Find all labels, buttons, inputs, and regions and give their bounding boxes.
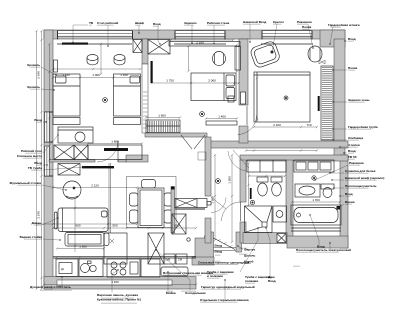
svg-text:Вход: Вход	[153, 22, 161, 26]
oven box	[164, 254, 175, 264]
wall entry threshold	[214, 248, 237, 251]
sill bed1	[57, 43, 132, 45]
dresser bed1	[88, 145, 142, 160]
wall jog bed1 bottom east	[126, 155, 148, 162]
sink kitchen	[79, 259, 103, 277]
towel bar bath1	[250, 188, 252, 199]
chair L2	[130, 210, 139, 223]
microwave box	[176, 254, 187, 264]
dim left chain2	[36, 31, 38, 289]
wall bathroom left lower	[240, 222, 246, 243]
svg-text:710: 710	[306, 123, 311, 127]
svg-text:1 100: 1 100	[120, 73, 128, 77]
svg-text:2 100: 2 100	[273, 123, 281, 127]
svg-text:1 600: 1 600	[79, 245, 87, 249]
hall tall wardrobe	[172, 214, 186, 234]
svg-text:Раковина: Раковина	[297, 20, 312, 24]
svg-text:Полка: Полка	[348, 66, 358, 70]
wall bed2 right lower stub	[239, 126, 248, 143]
svg-text:Зеркало: Зеркало	[184, 21, 197, 25]
tall cupboard	[104, 233, 127, 264]
dim bed1 beds	[53, 77, 141, 79]
dim bed2 vertical left	[188, 46, 190, 71]
svg-text:Ванна: Ванна	[345, 200, 355, 204]
chair T	[142, 180, 156, 189]
bathtub	[291, 205, 341, 225]
sill bath top	[261, 43, 313, 45]
chair bed1	[75, 132, 85, 142]
door bed1	[117, 141, 119, 162]
svg-text:3 240: 3 240	[37, 211, 41, 219]
closet room square	[254, 72, 310, 122]
svg-text:Диван: Диван	[31, 221, 41, 225]
tv living	[82, 166, 114, 168]
stove	[107, 259, 140, 277]
wall bed1 bottom	[48, 160, 95, 162]
svg-text:Спальное место: Спальное место	[17, 154, 42, 158]
radiator sofa	[55, 212, 58, 229]
window left wall lower balcony	[44, 175, 53, 177]
chair R2	[164, 210, 173, 223]
drain bath1	[250, 200, 254, 204]
svg-text:Рабочая стена: Рабочая стена	[207, 21, 229, 25]
svg-text:4 полки: 4 полки	[348, 143, 360, 147]
counter line	[53, 257, 196, 259]
svg-text:Вход: Вход	[348, 149, 356, 153]
svg-text:1 600: 1 600	[158, 114, 166, 118]
wall bathroom top band	[240, 155, 348, 161]
niche corridor top	[198, 152, 206, 160]
bench bed A	[53, 118, 80, 125]
svg-text:Полотенцесушитель: Полотенцесушитель	[345, 184, 377, 188]
svg-text:1 400: 1 400	[218, 115, 226, 119]
dim corridor vertical2	[231, 155, 233, 242]
wall left	[44, 30, 53, 289]
svg-text:СхМ: СхМ	[165, 258, 170, 262]
desk bed1	[58, 127, 93, 143]
svg-text:Вход: Вход	[348, 37, 356, 41]
dim bath2	[292, 201, 340, 203]
wall bathroom bottom band left	[243, 233, 287, 244]
basket closet	[308, 46, 322, 62]
svg-text:2 120: 2 120	[91, 183, 99, 187]
svg-text:Зеркало зоны: Зеркало зоны	[348, 98, 370, 102]
wall bottom kitchen	[44, 277, 196, 290]
tv closet	[318, 96, 320, 111]
tv bed2	[151, 61, 153, 83]
dim bottom	[44, 284, 196, 286]
svg-text:Вход: Вход	[215, 244, 223, 248]
pouf 2	[114, 55, 125, 61]
dishwasher	[56, 259, 78, 277]
svg-text:Варочная панель, духовка: Варочная панель, духовка	[97, 293, 138, 297]
washer bath1	[273, 206, 287, 222]
dim chaise	[57, 248, 104, 250]
door bath1	[240, 202, 242, 221]
wall bed2 bottom	[145, 133, 207, 137]
dim bed2 shelf	[171, 39, 233, 41]
dim corridor	[214, 155, 216, 240]
door closet from corridor	[233, 150, 249, 168]
svg-text:Раковина: Раковина	[349, 161, 364, 165]
sink unit 2	[161, 267, 188, 276]
svg-text:ТВ 50: ТВ 50	[348, 155, 357, 159]
dim closet vertical	[256, 78, 258, 120]
bed2 double	[191, 73, 236, 101]
apron bath2	[291, 227, 341, 229]
zone line kitchen	[108, 163, 110, 233]
svg-text:Полотенцесушитель электрически: Полотенцесушитель электрический	[296, 248, 351, 252]
window bed1 top	[58, 31, 133, 37]
door closet	[246, 106, 248, 125]
toilet bath1	[257, 177, 268, 182]
svg-text:Вход: Вход	[345, 192, 353, 196]
cabinet bath1	[247, 160, 286, 172]
svg-text:Кровать: Кровать	[27, 85, 40, 89]
dim bed1 dresser	[88, 143, 142, 145]
shelf bed2	[169, 42, 240, 47]
svg-text:Гардеробная штанга: Гардеробная штанга	[328, 23, 360, 27]
panel bed2 wall	[241, 92, 246, 104]
duct bath1	[277, 234, 286, 243]
wall top-right corner block	[320, 30, 345, 47]
wall entry jamb right	[236, 232, 242, 252]
hangers bed2 closet	[148, 121, 179, 132]
svg-text:Мойка: Мойка	[166, 291, 176, 295]
svg-text:Вход: Вход	[268, 279, 276, 283]
wall right bathroom	[340, 155, 348, 248]
dim left chain	[41, 31, 43, 289]
svg-text:1 060: 1 060	[92, 73, 100, 77]
svg-text:Вход: Вход	[215, 250, 223, 254]
dim bed2 right vertical	[236, 45, 238, 72]
wall corridor left lower	[205, 218, 211, 243]
svg-text:полками: полками	[245, 279, 258, 283]
wall partition bed1-bed2	[142, 39, 148, 64]
wall bathroom left	[240, 160, 246, 202]
dim living horizontal	[53, 187, 137, 189]
light living	[216, 179, 221, 184]
rug dining	[127, 177, 177, 228]
wall entry jamb left	[195, 232, 214, 261]
window bath top	[262, 31, 312, 37]
shelf alcove bed2	[206, 121, 237, 125]
wall bathroom divider	[286, 160, 293, 243]
svg-text:Барная стойка: Барная стойка	[20, 235, 43, 239]
svg-text:Холодильник: Холодильник	[185, 291, 206, 295]
dim bed1 window vertical	[100, 44, 102, 74]
bed B	[114, 74, 141, 116]
nightstand bed1 left	[54, 60, 58, 72]
svg-text:1 100: 1 100	[62, 73, 70, 77]
bidet bath1	[271, 177, 282, 182]
svg-text:Гарнитур однорядный модульный: Гарнитур однорядный модульный	[201, 285, 255, 289]
dim kitchen	[53, 227, 196, 229]
basket bed2	[213, 52, 226, 66]
bookcase bed2	[235, 47, 241, 71]
wall entry stub	[192, 257, 214, 265]
svg-text:Рабочий стол: Рабочий стол	[21, 149, 42, 153]
svg-text:Гардеробная труба: Гардеробная труба	[348, 125, 378, 129]
svg-text:Кресло: Кресло	[273, 20, 284, 24]
svg-text:Шкаф: Шкаф	[135, 21, 144, 25]
wall stub hall	[171, 187, 175, 234]
wall closet bottom	[207, 141, 348, 148]
tv bed1	[62, 43, 88, 45]
drain bath2	[312, 176, 316, 180]
dim bed1 vert	[49, 44, 51, 160]
svg-text:2 640: 2 640	[37, 71, 41, 79]
svg-text:Спальный гарнитур однорядный: Спальный гарнитур однорядный	[198, 261, 249, 265]
svg-text:1 750: 1 750	[166, 79, 174, 83]
cabinet bath2	[294, 160, 334, 172]
light bed1	[103, 98, 108, 103]
toilet bath2	[321, 184, 334, 189]
door corridor living	[211, 197, 226, 209]
wardrobe bed2 top	[148, 40, 170, 55]
window bed2 top	[175, 31, 225, 37]
dim closet	[254, 126, 317, 128]
pouf 1	[87, 55, 98, 61]
door bed2 double	[181, 135, 192, 149]
dim bed1 upper chain	[53, 68, 141, 70]
wall top	[44, 30, 345, 39]
window left wall upper	[44, 111, 53, 113]
dim bath1	[249, 175, 285, 177]
svg-text:ТВ тумба: ТВ тумба	[28, 166, 42, 170]
wall bathroom bottom band right	[287, 236, 348, 248]
fridge	[148, 233, 164, 264]
tv stand living	[58, 164, 80, 176]
svg-text:3 150: 3 150	[111, 280, 119, 284]
chair R1	[164, 193, 173, 206]
vanity bath2	[295, 184, 320, 197]
tilted chair closet	[249, 40, 281, 69]
svg-text:СМ: СМ	[178, 258, 182, 262]
nightstand bed2 a	[228, 96, 234, 102]
partition radiator ticks	[143, 91, 148, 93]
valve symbol	[319, 60, 325, 64]
sill bed2	[174, 43, 226, 45]
svg-text:Духовой шкаф и СВЧ печь: Духовой шкаф и СВЧ печь	[30, 285, 71, 289]
svg-text:Стол рабочий: Стол рабочий	[97, 21, 118, 25]
svg-text:2 160: 2 160	[196, 41, 204, 45]
svg-text:Хлебница: Хлебница	[348, 136, 363, 140]
bed A	[53, 74, 80, 116]
chair L1	[130, 193, 139, 206]
dim bed2	[152, 82, 239, 84]
dim sofa vertical	[74, 199, 76, 252]
svg-text:Встроенная стиральная машина: Встроенная стиральная машина	[163, 271, 213, 275]
svg-text:Навесной шкаф (зеркало): Навесной шкаф (зеркало)	[345, 176, 384, 180]
closet rod bed2	[146, 120, 180, 133]
door entry leaf	[214, 238, 236, 250]
dining table	[138, 188, 164, 228]
svg-text:Навесной Вход: Навесной Вход	[243, 20, 266, 24]
wall corridor left	[205, 137, 211, 196]
dim shelf alcove	[206, 118, 237, 120]
svg-text:Полка: Полка	[302, 25, 312, 29]
wall bed2 right	[239, 39, 248, 105]
svg-text:1 800: 1 800	[111, 139, 119, 143]
shower bath1	[245, 206, 273, 233]
hall light	[187, 238, 190, 241]
svg-text:Вход: Вход	[34, 118, 42, 122]
svg-text:Кровать: Кровать	[27, 63, 40, 67]
closet light	[284, 96, 288, 100]
base cabinet	[141, 259, 160, 277]
hangers right closet	[322, 68, 332, 140]
svg-text:1 700: 1 700	[312, 198, 320, 202]
wall right upper	[334, 39, 345, 158]
sofa	[58, 208, 108, 232]
chaise	[65, 233, 104, 247]
hall cabinet row	[175, 199, 207, 208]
closet rod right	[321, 66, 333, 140]
svg-text:Кухонная мебель. Проект N1: Кухонная мебель. Проект N1	[97, 298, 141, 302]
dim sofa horizontal	[36, 223, 137, 225]
svg-text:600: 600	[174, 224, 179, 228]
wardrobe bed1 corner	[133, 40, 142, 53]
dim comb bed2	[146, 117, 180, 119]
svg-text:Отдельная стиральная машина: Отдельная стиральная машина	[200, 298, 249, 302]
hall rail	[175, 208, 205, 210]
svg-text:Сушилка для белья: Сушилка для белья	[345, 169, 376, 173]
armchair living	[63, 181, 81, 199]
svg-text:2 060: 2 060	[208, 79, 216, 83]
wardrobe bed1 left	[54, 145, 74, 160]
bench bed B	[114, 118, 141, 125]
light bed2	[200, 112, 205, 117]
svg-text:1 950: 1 950	[228, 176, 232, 184]
dim bath1 vertical	[248, 163, 250, 205]
